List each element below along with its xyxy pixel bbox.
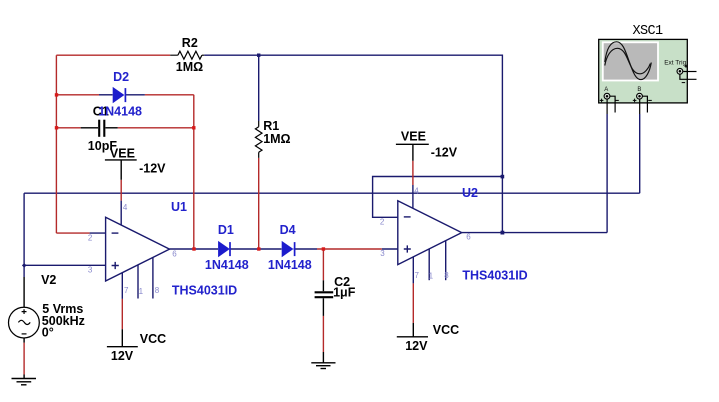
- svg-text:12V: 12V: [111, 349, 134, 363]
- svg-text:R2: R2: [182, 36, 198, 50]
- svg-text:D1: D1: [218, 223, 234, 237]
- svg-text:7: 7: [124, 286, 129, 295]
- svg-text:VEE: VEE: [401, 129, 426, 143]
- svg-text:12V: 12V: [405, 339, 428, 353]
- svg-text:4: 4: [414, 186, 419, 195]
- svg-text:3: 3: [88, 265, 93, 274]
- svg-text:THS4031ID: THS4031ID: [172, 284, 237, 298]
- svg-text:8: 8: [444, 271, 449, 280]
- svg-text:-12V: -12V: [431, 145, 458, 159]
- svg-text:VCC: VCC: [433, 323, 459, 337]
- svg-text:6: 6: [466, 232, 471, 241]
- svg-text:VEE: VEE: [110, 146, 135, 160]
- svg-text:THS4031ID: THS4031ID: [462, 268, 527, 282]
- svg-text:1: 1: [429, 272, 434, 281]
- svg-text:Ext Trig: Ext Trig: [664, 60, 686, 67]
- svg-text:3: 3: [380, 249, 385, 258]
- svg-text:0°: 0°: [42, 325, 54, 339]
- svg-text:R1: R1: [263, 119, 279, 133]
- svg-text:VCC: VCC: [140, 332, 166, 346]
- svg-text:4: 4: [123, 203, 128, 212]
- svg-text:1: 1: [139, 287, 144, 296]
- svg-text:U2: U2: [462, 186, 478, 200]
- svg-text:V2: V2: [41, 273, 56, 287]
- svg-text:D4: D4: [280, 223, 296, 237]
- svg-text:B: B: [637, 87, 641, 93]
- svg-text:A: A: [604, 87, 608, 93]
- svg-text:D2: D2: [113, 70, 129, 84]
- svg-text:U1: U1: [171, 200, 187, 214]
- svg-text:1μF: 1μF: [333, 286, 356, 300]
- svg-text:8: 8: [155, 286, 160, 295]
- svg-text:2: 2: [380, 217, 385, 226]
- svg-text:1N4148: 1N4148: [268, 258, 312, 272]
- svg-text:XSC1: XSC1: [633, 24, 664, 39]
- svg-text:7: 7: [415, 271, 420, 280]
- svg-text:-12V: -12V: [139, 161, 166, 175]
- svg-text:1MΩ: 1MΩ: [263, 132, 290, 146]
- svg-text:6: 6: [172, 250, 177, 259]
- svg-text:2: 2: [88, 233, 93, 242]
- svg-text:1N4148: 1N4148: [98, 105, 142, 119]
- svg-text:1MΩ: 1MΩ: [176, 60, 203, 74]
- svg-text:1N4148: 1N4148: [205, 258, 249, 272]
